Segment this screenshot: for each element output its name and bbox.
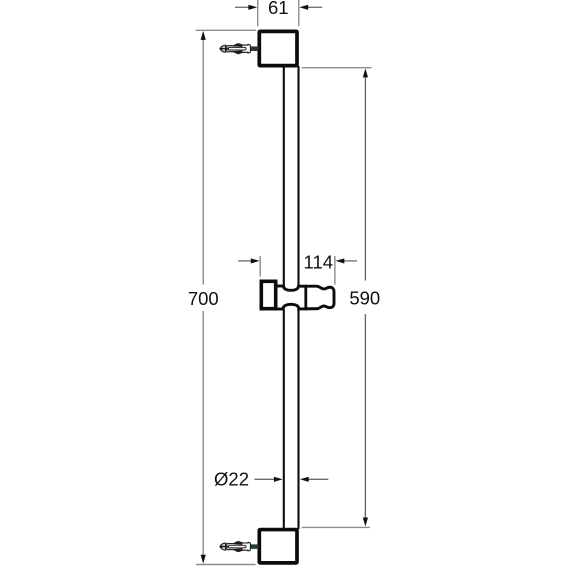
anchor stem <box>250 544 259 549</box>
dimension 700: vertical dimension line upper segment <box>202 40 204 285</box>
rail bar left line upper segment <box>283 66 285 285</box>
dimension 61: extension line right <box>298 0 300 26</box>
bar saddle U at holder top <box>283 285 298 291</box>
dimension 61: left leader <box>235 6 250 8</box>
dimension 590: up arrowhead <box>363 68 368 77</box>
anchor body <box>227 46 242 52</box>
dimension 114: right leader <box>344 260 358 262</box>
holder bottom edge right segment <box>299 307 307 310</box>
anchor sleeve <box>242 542 251 550</box>
anchor sleeve <box>242 45 251 53</box>
bottom wall anchor <box>219 541 258 552</box>
holder top edge left segment <box>276 285 283 288</box>
dimension 114: right arrowhead <box>336 258 345 263</box>
dimension 700: bottom extension line <box>196 564 256 566</box>
dimension 590: vertical dimension line lower segment <box>364 314 366 518</box>
svg-text:114: 114 <box>304 251 334 272</box>
dimension 590: down arrowhead <box>363 518 368 527</box>
anchor inner rod <box>228 47 246 50</box>
anchor centerline <box>220 546 229 548</box>
slider clamp rectangle <box>261 281 275 308</box>
dimension 590: top extension line <box>302 67 372 69</box>
anchor inner rod <box>228 545 246 548</box>
dimension 114: right extension line <box>334 256 336 285</box>
dimension diameter 22: left arrowhead <box>274 477 283 482</box>
svg-text:700: 700 <box>188 288 219 309</box>
anchor collar ring <box>225 45 227 52</box>
anchor cone tip <box>220 45 226 52</box>
anchor top fin <box>232 43 244 47</box>
dimension 61: extension line left <box>257 0 259 26</box>
svg-text:Ø22: Ø22 <box>214 469 249 490</box>
anchor bottom fin <box>232 549 244 553</box>
dimension diameter 22: right arrowhead <box>300 477 309 482</box>
anchor body top edge <box>227 543 243 545</box>
dimension 590: bottom extension line <box>302 526 370 528</box>
rail bar left line lower segment <box>283 310 285 530</box>
dimension 700: up arrowhead <box>201 31 206 40</box>
anchor top fin <box>232 541 244 545</box>
anchor cone tip <box>220 543 226 550</box>
top wall bracket <box>259 31 297 65</box>
svg-text:61: 61 <box>268 0 289 18</box>
anchor centerline <box>220 48 229 50</box>
dimension 61: right arrowhead <box>299 5 308 10</box>
anchor body bottom edge <box>227 51 243 53</box>
top wall anchor <box>219 43 258 54</box>
anchor tip point <box>219 47 222 50</box>
bar dome at holder bottom <box>283 304 299 310</box>
holder divider line <box>304 285 307 310</box>
bottom wall bracket <box>259 530 297 563</box>
rail bar right line lower segment <box>297 310 299 530</box>
anchor body <box>227 543 242 549</box>
anchor body top edge <box>227 45 243 47</box>
dimension 114: left leader <box>238 260 252 262</box>
anchor tip point <box>219 545 222 548</box>
dimension diameter 22: left leader <box>255 478 275 480</box>
anchor body bottom edge <box>227 549 243 551</box>
dimension 61: left arrowhead <box>248 5 257 10</box>
dimension 700: top extension line <box>196 29 257 31</box>
rail bar right line upper segment <box>297 66 299 285</box>
anchor stem <box>250 46 259 51</box>
dimension 700: vertical dimension line lower segment <box>202 311 204 555</box>
anchor bottom fin <box>232 51 244 55</box>
dimension 61: right leader <box>308 6 322 8</box>
dimension diameter 22: right leader <box>308 478 328 480</box>
anchor collar ring <box>225 543 227 550</box>
holder top edge right segment <box>300 285 307 288</box>
svg-text:590: 590 <box>349 287 380 308</box>
holder cone outline <box>306 286 334 309</box>
dimension 114: left extension line <box>259 256 261 277</box>
dimension 700: down arrowhead <box>201 555 206 564</box>
holder bottom edge left segment <box>276 308 283 311</box>
dimension 114: left arrowhead <box>251 258 260 263</box>
dimension 590: vertical dimension line upper segment <box>364 77 366 281</box>
